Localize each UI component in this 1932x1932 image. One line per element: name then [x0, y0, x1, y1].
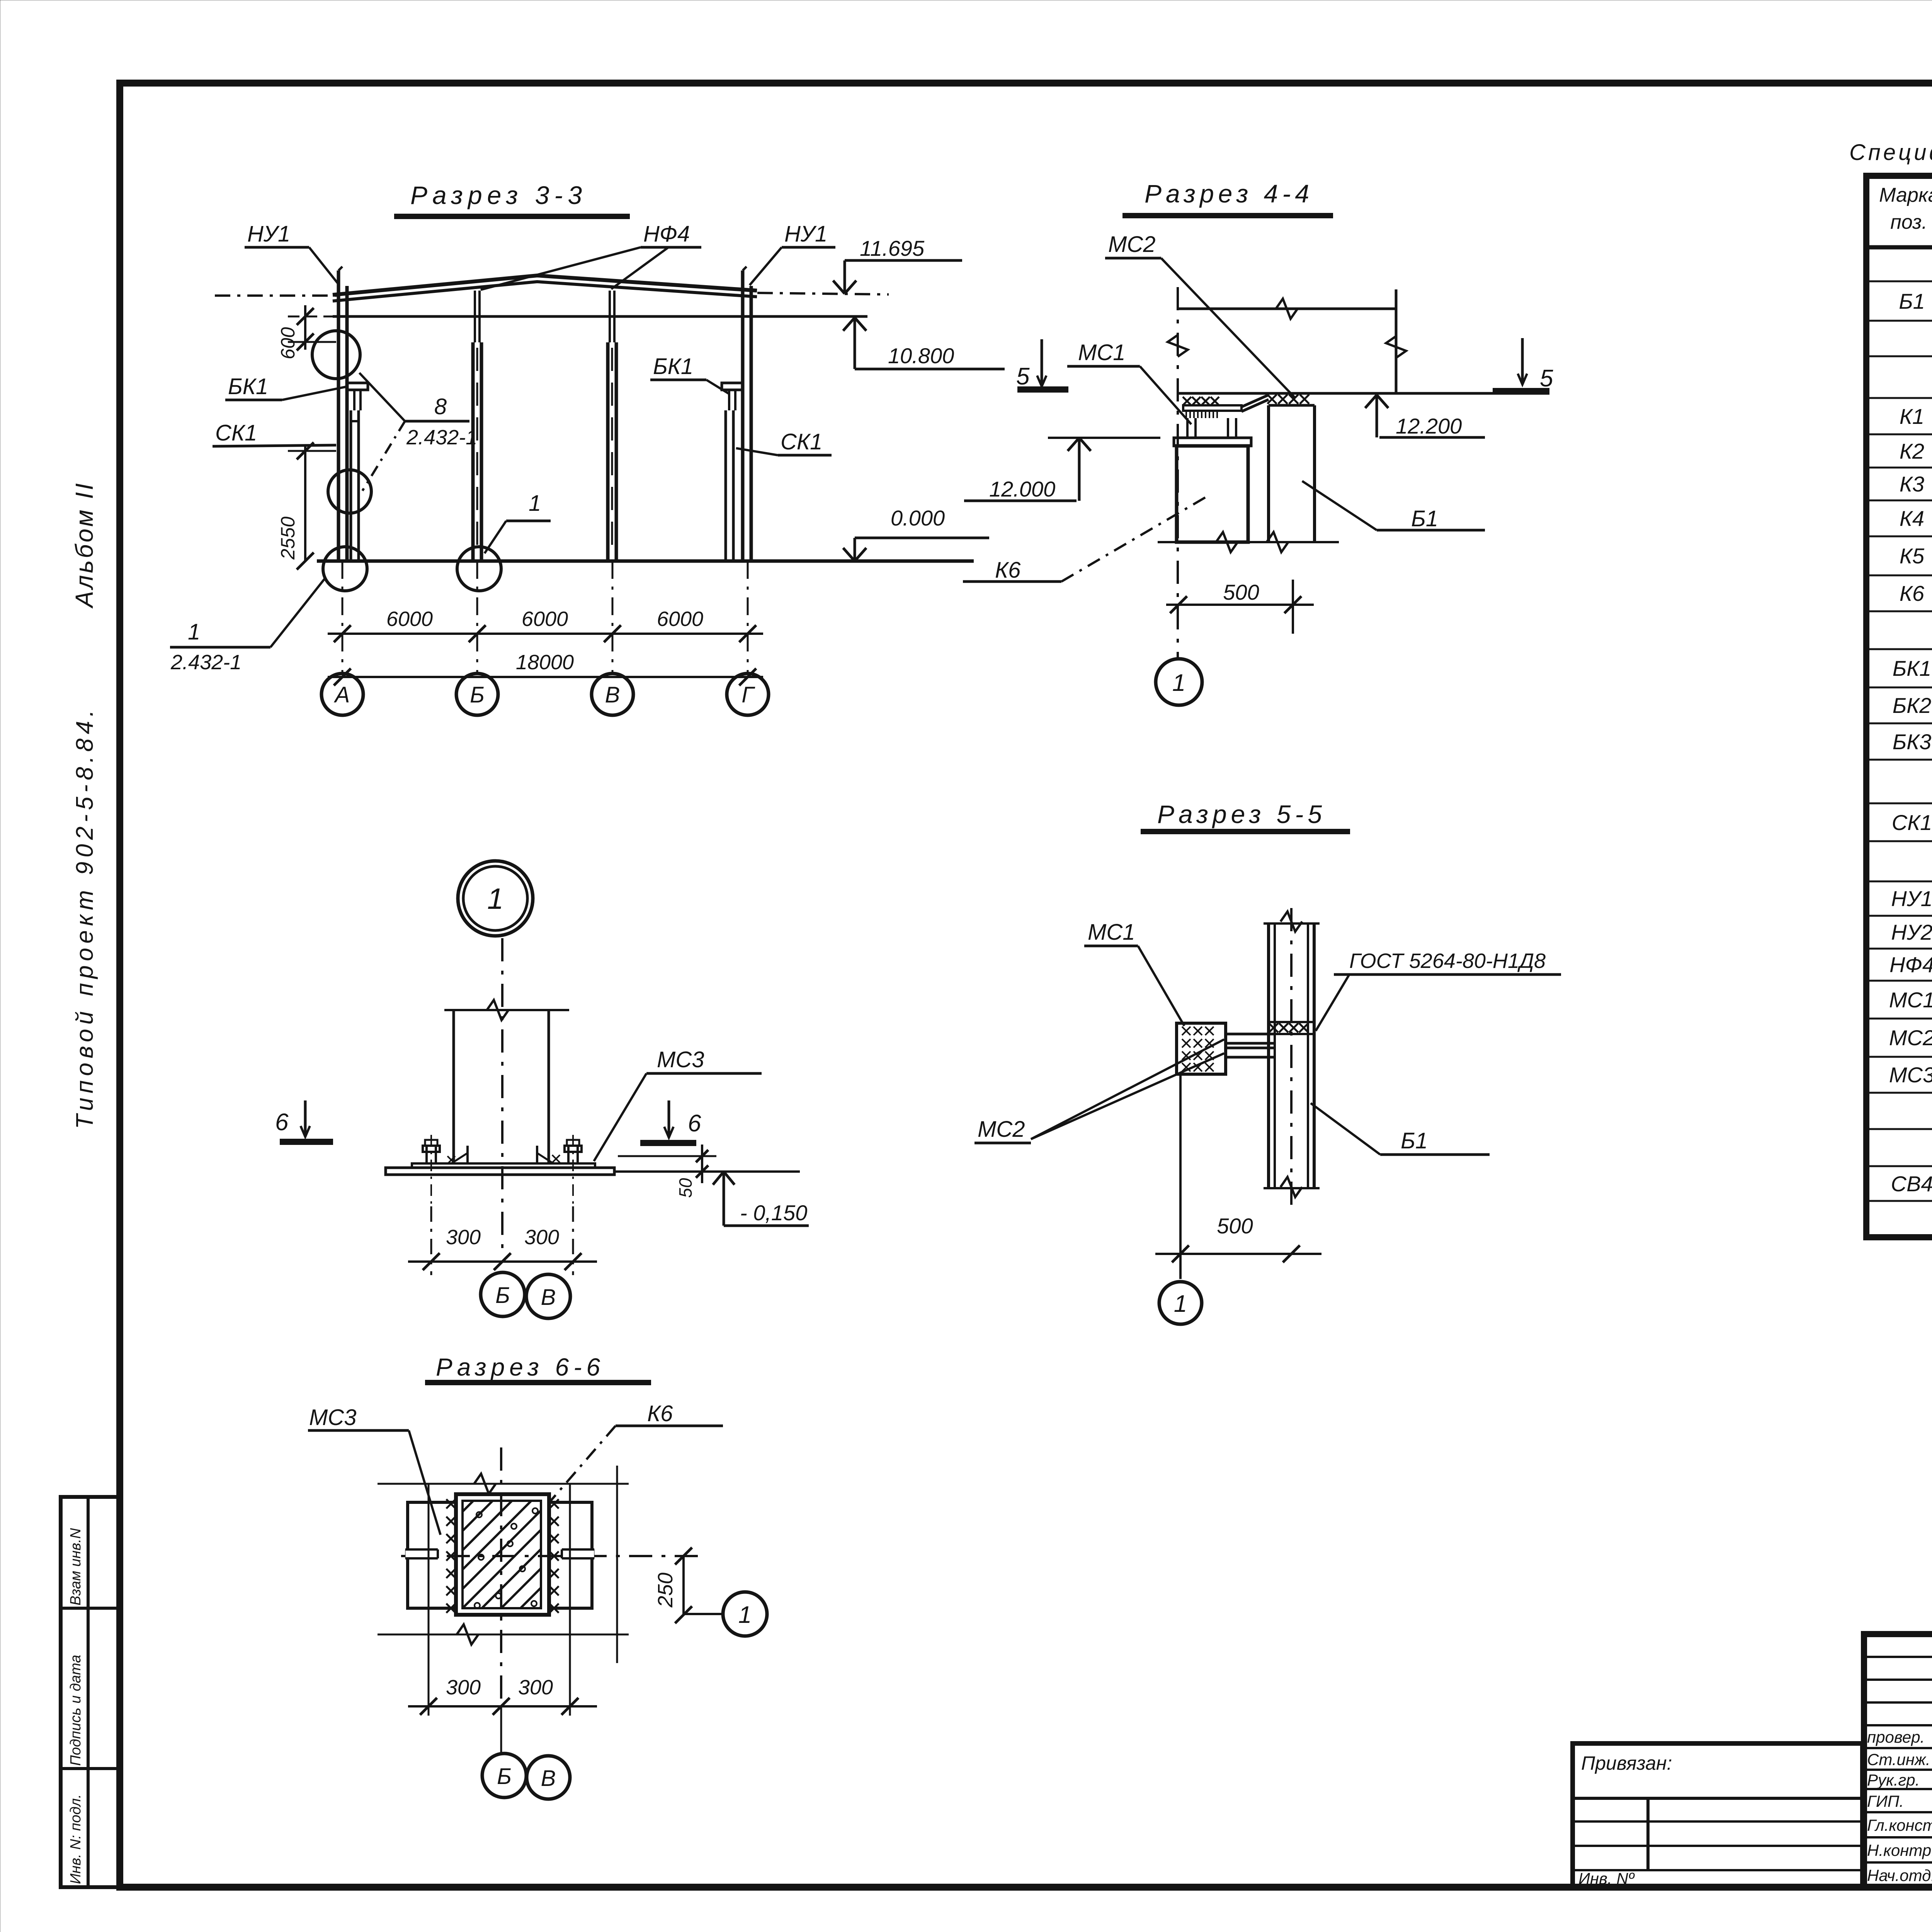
привязан box: [1573, 1743, 1862, 1887]
svg-text:300: 300: [524, 1226, 559, 1249]
stiffener plate МС1 (5-5): [1177, 1023, 1226, 1074]
svg-text:6: 6: [275, 1109, 289, 1136]
svg-text:СВ4: СВ4: [1891, 1172, 1932, 1196]
svg-text:НФ4: НФ4: [643, 221, 690, 247]
joint plate МС1: [1183, 405, 1242, 411]
column at axis Г (НУ1 + СК1 + БК1): [741, 270, 745, 561]
beam Б1 plan (5-5): [1267, 923, 1270, 1188]
detail circle on column Б base: [457, 547, 501, 591]
dim row 18000: [328, 676, 763, 678]
crane beam БК1 on axis А: [347, 383, 368, 390]
svg-text:БК1: БК1: [653, 354, 693, 379]
left margin strip table: [61, 1497, 120, 1887]
svg-text:2.432-1: 2.432-1: [406, 426, 477, 449]
svg-text:300: 300: [446, 1676, 481, 1699]
svg-text:В: В: [541, 1766, 556, 1791]
МС2 sloped plate: [1242, 395, 1269, 407]
svg-text:Марка,: Марка,: [1879, 184, 1932, 206]
column at axis В: [606, 342, 610, 562]
side plate МС3 right: [549, 1502, 592, 1608]
svg-text:МС1: МС1: [1889, 988, 1932, 1012]
extension lines 6-6: [378, 1483, 629, 1485]
crane beam БК1 on axis Г: [722, 383, 743, 390]
svg-text:СК1: СК1: [781, 429, 822, 454]
grid bubble Б (base): [481, 1272, 525, 1316]
svg-text:Инв. N: подл.: Инв. N: подл.: [68, 1794, 84, 1884]
svg-text:Спецификация к схеме расположе: Спецификация к схеме расположения колонн…: [1849, 140, 1932, 165]
svg-text:300: 300: [446, 1226, 481, 1249]
detail circle 1 on column А top: [312, 331, 360, 379]
column at axis А (НУ1 + СК1 + БК1): [337, 270, 340, 561]
svg-text:МС2: МС2: [1889, 1026, 1932, 1050]
grid bubble В: [592, 673, 633, 715]
svg-text:Разрез 3-3: Разрез 3-3: [410, 181, 587, 209]
beam Б1: [1267, 405, 1270, 542]
svg-text:БК3: БК3: [1893, 730, 1932, 754]
dim 500 (5-5): [1179, 1074, 1182, 1279]
svg-text:провер.: провер.: [1867, 1728, 1925, 1746]
svg-text:К5: К5: [1900, 544, 1925, 568]
svg-text:МС2: МС2: [1108, 232, 1155, 257]
svg-text:300: 300: [518, 1676, 553, 1699]
svg-text:Типовой проект 902-5-8.84.: Типовой проект 902-5-8.84.: [71, 706, 98, 1129]
svg-text:СК1: СК1: [1892, 810, 1932, 835]
specification table: [1866, 176, 1932, 1237]
side plate МС3 left: [408, 1502, 456, 1608]
grid bubble Б (6-6): [500, 1706, 502, 1753]
svg-text:МС3: МС3: [309, 1405, 356, 1430]
svg-text:Б: Б: [497, 1764, 512, 1789]
node detail: circle 1 double: [458, 861, 533, 936]
svg-text:В: В: [541, 1285, 556, 1310]
svg-text:Б1: Б1: [1899, 289, 1925, 313]
column К6 section (hatched): [456, 1494, 549, 1615]
svg-text:НУ1: НУ1: [247, 221, 290, 247]
svg-text:Б: Б: [470, 682, 485, 707]
column at axis Б: [471, 342, 475, 562]
svg-text:6000: 6000: [386, 607, 433, 631]
column axis centerline: [1177, 287, 1179, 659]
detail circle 3 on column А base: [323, 547, 367, 591]
svg-text:Гл.констр: Гл.констр: [1867, 1816, 1932, 1834]
grid bubble В (base): [526, 1274, 570, 1318]
svg-text:Альбом II: Альбом II: [70, 481, 98, 609]
svg-text:Разрез 4-4: Разрез 4-4: [1145, 179, 1313, 208]
svg-text:6: 6: [688, 1110, 701, 1137]
svg-text:МС1: МС1: [1078, 340, 1125, 365]
svg-text:600: 600: [277, 327, 299, 359]
svg-text:К3: К3: [1900, 472, 1924, 496]
svg-text:500: 500: [1223, 580, 1259, 604]
svg-text:Взам инв.N: Взам инв.N: [68, 1528, 84, 1605]
svg-text:НФ4: НФ4: [1889, 952, 1932, 977]
svg-text:К1: К1: [1900, 404, 1924, 429]
svg-text:Разрез 5-5: Разрез 5-5: [1157, 800, 1326, 828]
svg-text:МС1: МС1: [1088, 920, 1135, 945]
svg-text:БК1: БК1: [1893, 656, 1932, 680]
svg-text:1: 1: [487, 883, 503, 915]
ground line 0.000: [317, 560, 974, 563]
beam top weld hatch: [1269, 1023, 1278, 1032]
roof top chord: [333, 276, 757, 295]
level dash line 11.695: [215, 294, 344, 297]
svg-text:Н.контр.: Н.контр.: [1867, 1841, 1932, 1859]
dim 250: [682, 1556, 685, 1615]
grid bubble Б: [456, 673, 498, 715]
dim row 6000x3: [328, 633, 763, 635]
base detail centerline: [501, 938, 503, 1252]
svg-text:МС2: МС2: [978, 1117, 1025, 1142]
grid bubble А: [321, 673, 363, 715]
svg-text:50: 50: [675, 1178, 696, 1198]
svg-text:10.800: 10.800: [888, 344, 954, 368]
svg-text:6000: 6000: [657, 607, 703, 631]
anchor bolt right: [567, 1146, 570, 1163]
title block: [1864, 1634, 1932, 1887]
svg-text:К6: К6: [647, 1401, 673, 1426]
svg-text:0.000: 0.000: [891, 506, 945, 530]
svg-text:К6: К6: [995, 558, 1021, 583]
svg-text:Рук.гр.: Рук.гр.: [1867, 1771, 1920, 1789]
svg-text:Инв. Nº: Инв. Nº: [1578, 1869, 1635, 1888]
svg-text:Ст.инж.: Ст.инж.: [1867, 1750, 1930, 1769]
dim 300 300 (base): [430, 1206, 432, 1275]
grid bubble В (6-6): [527, 1756, 570, 1799]
svg-text:12.200: 12.200: [1396, 414, 1462, 438]
svg-text:Б1: Б1: [1411, 506, 1438, 531]
svg-text:6000: 6000: [522, 607, 568, 631]
base plate upper: [412, 1163, 595, 1168]
svg-text:К4: К4: [1900, 506, 1924, 531]
svg-text:500: 500: [1217, 1214, 1253, 1238]
svg-text:1: 1: [738, 1602, 752, 1628]
svg-text:ГОСТ 5264-80-Н1Д8: ГОСТ 5264-80-Н1Д8: [1349, 949, 1546, 973]
svg-text:Б1: Б1: [1401, 1128, 1428, 1153]
connection plates МС2 (5-5): [1226, 1033, 1275, 1036]
beam centerline (5-5): [1290, 908, 1293, 1209]
svg-text:БК1: БК1: [228, 374, 268, 399]
svg-text:12.000: 12.000: [989, 477, 1055, 501]
centerlines 6-6: [500, 1447, 502, 1708]
svg-text:Подпись и дата: Подпись и дата: [68, 1655, 84, 1766]
svg-text:В: В: [605, 682, 620, 707]
roof beam right edge: [1395, 289, 1398, 393]
svg-text:НУ1: НУ1: [1891, 886, 1932, 911]
bottom break line: [1158, 541, 1339, 543]
svg-text:11.695: 11.695: [860, 236, 925, 260]
svg-text:МС3: МС3: [657, 1047, 704, 1072]
grid extension lines: [342, 561, 344, 673]
dim 50: [618, 1155, 716, 1157]
detail circle 2 on column А middle: [328, 470, 371, 513]
svg-text:ГИП.: ГИП.: [1867, 1792, 1904, 1810]
anchor bolt left: [425, 1146, 428, 1163]
svg-text:18000: 18000: [516, 651, 574, 674]
svg-text:8: 8: [434, 394, 447, 419]
svg-text:СК1: СК1: [215, 420, 257, 446]
svg-text:А: А: [334, 682, 350, 707]
svg-text:БК2: БК2: [1893, 693, 1932, 718]
dim 2550: [304, 444, 306, 561]
svg-text:Привязан:: Привязан:: [1581, 1752, 1672, 1774]
svg-text:НУ2: НУ2: [1891, 920, 1932, 944]
grid bubble Г: [727, 673, 769, 715]
svg-text:Разрез 6-6: Разрез 6-6: [436, 1353, 605, 1381]
weld x-marks: [446, 1499, 456, 1509]
svg-text:поз.: поз.: [1890, 211, 1927, 233]
svg-text:1: 1: [1172, 670, 1185, 696]
svg-text:2.432-1: 2.432-1: [170, 651, 241, 674]
svg-text:2550: 2550: [277, 517, 299, 560]
svg-text:Нач.отд.: Нач.отд.: [1867, 1866, 1932, 1884]
svg-text:К2: К2: [1900, 439, 1924, 463]
svg-text:К6: К6: [1900, 581, 1925, 605]
node circle 1 (6-6): [684, 1613, 723, 1615]
column shaft above base plate: [452, 1010, 455, 1163]
level line 10.800: [333, 315, 867, 318]
column К6 head: [1177, 446, 1248, 542]
grid bubble 1 (4-4): [1156, 659, 1202, 705]
svg-text:250: 250: [654, 1573, 677, 1608]
svg-text:НУ1: НУ1: [784, 221, 827, 247]
svg-text:1: 1: [1174, 1291, 1187, 1317]
base plate lower: [386, 1168, 614, 1175]
svg-text:Б: Б: [495, 1283, 510, 1308]
svg-text:МС3: МС3: [1889, 1063, 1932, 1087]
roof beam top line: [1178, 308, 1396, 310]
svg-text:1: 1: [188, 619, 200, 645]
svg-text:5: 5: [1016, 363, 1030, 390]
svg-text:5: 5: [1540, 365, 1553, 392]
svg-text:- 0,150: - 0,150: [740, 1201, 807, 1225]
roof slab soffit line 12.200: [1178, 392, 1549, 395]
grid bubble 1 (5-5): [1159, 1282, 1202, 1324]
dim 600: [304, 305, 306, 350]
svg-text:1: 1: [529, 491, 541, 516]
svg-text:Г: Г: [742, 682, 755, 707]
